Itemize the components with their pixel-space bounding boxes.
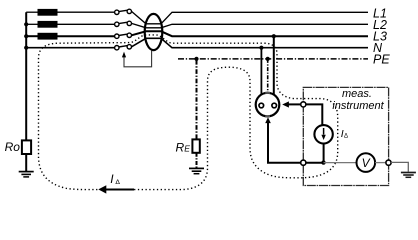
wire T2 to junction [306, 162, 324, 164]
svg-text:E: E [184, 144, 190, 154]
junction on N [24, 46, 28, 50]
junction on N for socket [259, 46, 263, 50]
wire L1 to switch [58, 11, 115, 13]
wire L2 to switch [58, 23, 115, 25]
socket pin hole left [259, 103, 264, 108]
wire L3 left [26, 35, 37, 37]
switch S2 (L2) [115, 21, 132, 26]
wire T3 to ground [391, 162, 408, 171]
fuse F2 [38, 21, 58, 28]
wire L1 left [26, 11, 37, 13]
wire junction to voltmeter [324, 162, 357, 164]
svg-text:V: V [362, 156, 371, 170]
measuring instrument box [303, 87, 388, 185]
wire L3 to switch [58, 35, 115, 37]
terminal T1 [301, 102, 306, 107]
resistor Ro body [22, 140, 31, 154]
trip arrow [122, 52, 126, 58]
wire L2 through CT [132, 23, 369, 27]
voltmeter V [357, 153, 376, 172]
wire L1 through CT [132, 11, 369, 23]
current source U1 [314, 125, 332, 143]
wire L2 left [26, 23, 37, 25]
svg-text:instrument: instrument [332, 100, 384, 112]
socket outlet body [256, 93, 280, 117]
wire L3 drop to socket [273, 36, 275, 95]
socket pin hole right [272, 103, 277, 108]
current source arrow [323, 128, 325, 135]
ground (instrument) [401, 173, 416, 178]
svg-text:PE: PE [373, 53, 390, 67]
wire N drop to socket [260, 48, 262, 95]
wire L3 through CT [132, 31, 369, 36]
svg-text:Δ: Δ [344, 134, 348, 140]
junction on L3 for socket [272, 34, 276, 38]
wire PE drop to socket (dash-dot) [267, 59, 269, 93]
svg-text:meas.: meas. [342, 88, 372, 100]
probe wire to socket PE (up arrow) [268, 123, 301, 163]
switch S3 (L3) [115, 33, 132, 38]
svg-text:Ro: Ro [5, 140, 21, 154]
switch S4 (N) [115, 45, 132, 50]
wire N through CT [132, 38, 369, 47]
svg-text:R: R [176, 140, 185, 154]
junction on L3 [24, 34, 28, 38]
svg-text:Δ: Δ [115, 179, 120, 186]
wire RE to ground (dash-dot) [196, 153, 198, 169]
terminal T2 [301, 160, 306, 165]
junction on PE for RE [194, 57, 198, 61]
fault current dotted loop I-delta [39, 35, 338, 190]
probe wire to socket L (arrow) [288, 103, 300, 105]
wire T1 to current source [306, 104, 322, 125]
junction on PE for socket [266, 57, 270, 61]
wire Ro to ground [25, 154, 27, 172]
fuse F3 [38, 33, 58, 40]
arrow I-delta on bottom dotted path [105, 189, 134, 191]
resistor RE body [192, 139, 199, 152]
terminal T3 [386, 160, 391, 165]
ground (RE) [189, 168, 204, 173]
fuse F1 [38, 9, 58, 16]
RCD trip linkage bracket [124, 51, 152, 67]
switch S1 (L1) [115, 9, 132, 14]
ground (Ro) [19, 172, 34, 177]
wire PE to RE (dash-dot) [196, 60, 198, 139]
wire V to terminal T3 [375, 162, 385, 164]
bus feed vertical wire [25, 12, 27, 141]
socket PE contact top [265, 92, 270, 94]
wire source to bus [323, 144, 325, 163]
PE line [178, 58, 368, 60]
junction on L2 [24, 22, 28, 26]
wire N to switch [26, 47, 114, 49]
current transformer CT ellipse [145, 14, 163, 50]
socket PE contact bottom [265, 115, 270, 117]
junction at source/bus [321, 160, 325, 164]
